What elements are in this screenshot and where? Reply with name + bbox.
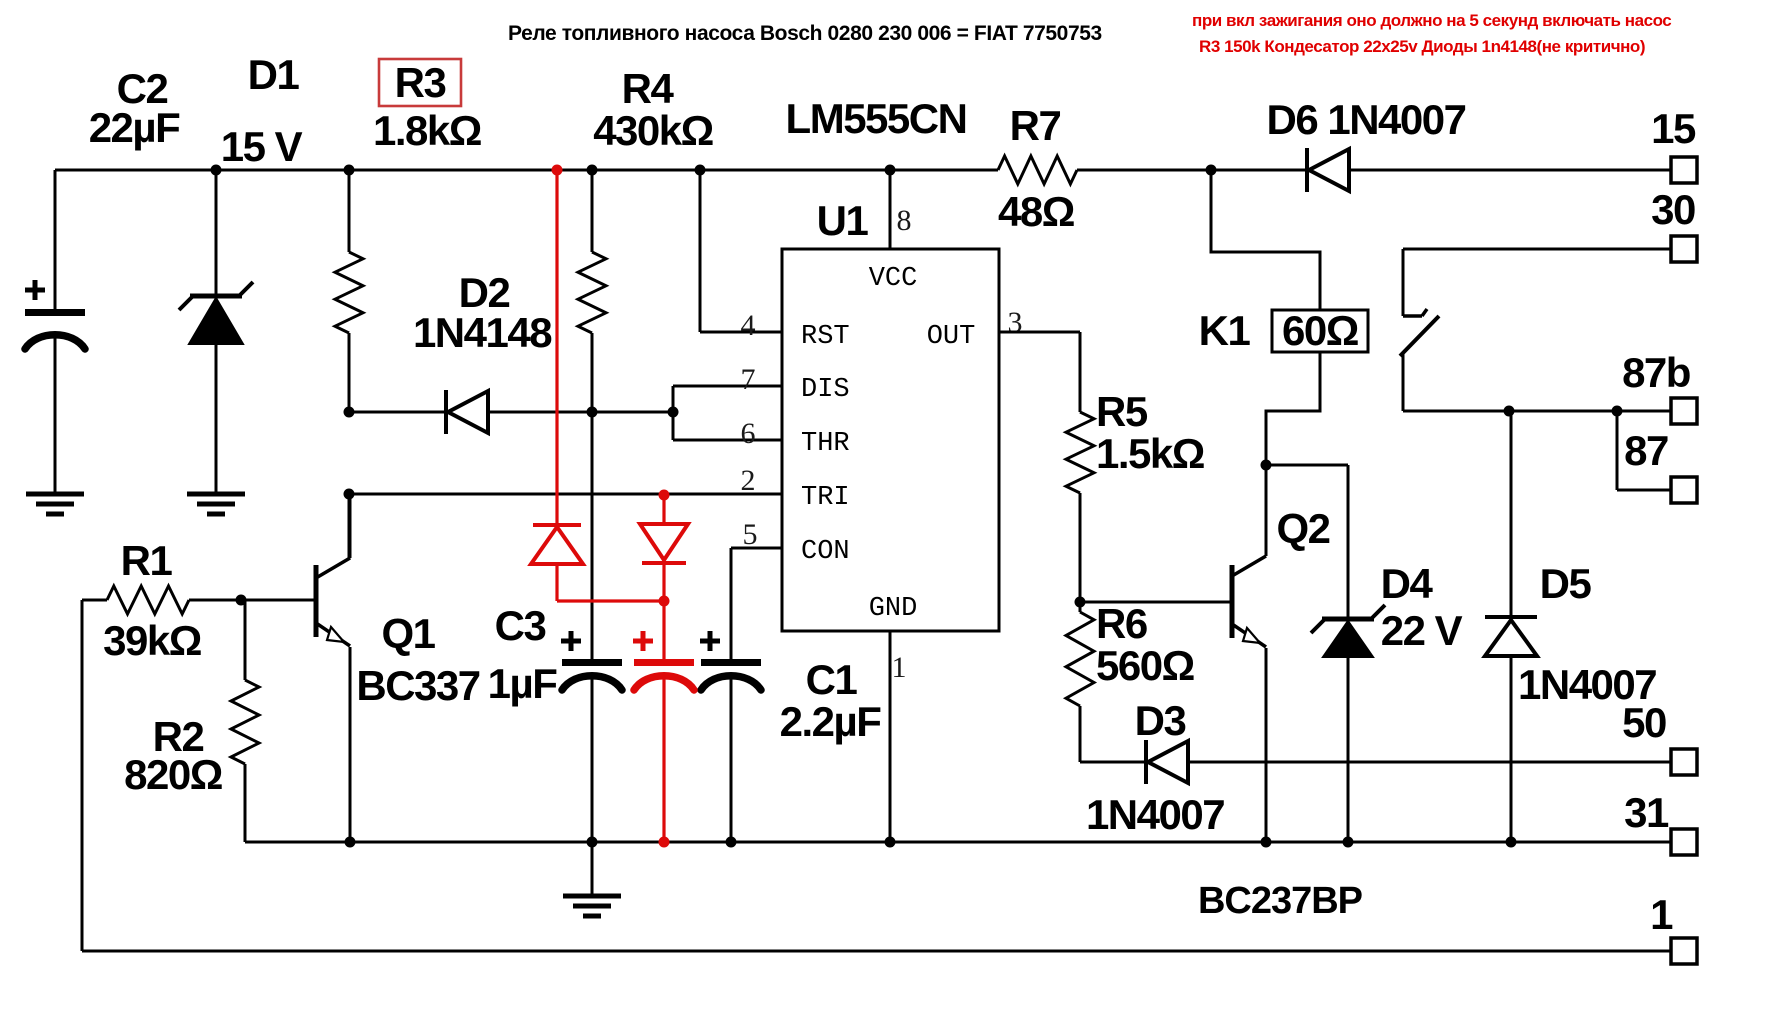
node: Q2 collector junction	[1261, 460, 1272, 471]
wire: 87b to D5	[1510, 411, 1513, 617]
wire: DIS/THR bracket	[673, 386, 782, 440]
pin number 3	[1008, 306, 1023, 339]
svg-text:87b: 87b	[1622, 349, 1690, 396]
wire: red timing tap (vertical)	[555, 170, 558, 525]
resistor R7	[998, 156, 1077, 184]
pin number 7	[741, 363, 756, 396]
wire: Q2 collector to D4	[1266, 465, 1348, 617]
terminal 87	[1624, 427, 1697, 503]
wire: base to Q1	[241, 599, 314, 602]
red note line 2	[1199, 37, 1645, 56]
svg-text:D3: D3	[1135, 697, 1186, 744]
svg-text:3: 3	[1008, 306, 1023, 339]
svg-text:2.2µF: 2.2µF	[780, 698, 882, 745]
diode red up (left)	[531, 525, 583, 601]
terminal 31	[1624, 789, 1697, 855]
svg-text:U1: U1	[817, 197, 869, 244]
wire: K1 coil top	[1211, 170, 1320, 310]
wire: D2 row	[349, 411, 673, 414]
wire: GND pin 1 down	[889, 631, 892, 842]
svg-text:RST: RST	[801, 322, 850, 352]
resistor R2	[231, 600, 259, 842]
svg-text:5: 5	[743, 518, 758, 551]
node: R1-R2-base junction	[236, 595, 247, 606]
node: R5-R6-base junction	[1075, 597, 1086, 608]
node: R3-D2 junction	[344, 407, 355, 418]
svg-text:LM555CN: LM555CN	[786, 95, 967, 142]
label R6 560	[1096, 600, 1194, 689]
label D5 1N4007	[1518, 560, 1656, 708]
label D6 1N4007	[1267, 96, 1466, 143]
wire: TRI pin 2 row	[349, 493, 782, 496]
pin name CON	[801, 537, 850, 567]
label R1 39k	[103, 537, 201, 664]
pin name OUT	[927, 322, 976, 352]
pin name DIS	[801, 375, 850, 405]
wire: VCC pin 8	[889, 170, 892, 249]
node: D5-rail	[1506, 837, 1517, 848]
wire: C3 line down	[591, 412, 594, 842]
label D2 1N4148	[413, 269, 552, 356]
wire: CON pin 5	[731, 548, 782, 659]
node: rail-R4 junction	[587, 165, 598, 176]
wire: R3 line to Q1 collector	[348, 494, 351, 560]
resistor R4	[578, 170, 606, 412]
svg-text:VCC: VCC	[869, 264, 918, 294]
capacitor C1	[700, 631, 761, 842]
wire: switch to 87b	[1403, 410, 1671, 413]
svg-text:50: 50	[1622, 699, 1666, 746]
pin number 4	[741, 309, 756, 342]
diode D3	[1146, 740, 1188, 784]
svg-text:R6: R6	[1096, 600, 1147, 647]
zener diode D1	[179, 282, 253, 344]
node: 87b-87 junction	[1612, 406, 1623, 417]
label D1 15V	[221, 51, 303, 170]
svg-text:R4: R4	[622, 65, 675, 112]
node: rail-K1 junction	[1206, 165, 1217, 176]
ground (C2)	[26, 494, 84, 514]
resistor R1	[82, 586, 241, 614]
transistor Q2	[1232, 465, 1266, 842]
svg-text:D5: D5	[1540, 560, 1592, 607]
svg-text:BC337: BC337	[356, 662, 479, 709]
node: R4-D2 junction	[587, 407, 598, 418]
node: D2-DIS/THR junction	[668, 407, 679, 418]
wire: R1 to terminal 1	[82, 600, 1671, 951]
terminal 1	[1650, 891, 1697, 964]
label 60Ω	[1282, 307, 1358, 354]
svg-text:K1: K1	[1199, 307, 1251, 354]
label D3 1N4007	[1086, 697, 1224, 838]
wire: ground bottom rail	[245, 841, 1671, 844]
node: rail-RST junction	[695, 165, 706, 176]
ground (D1)	[187, 494, 245, 514]
label C1 2.2µF	[780, 656, 882, 745]
svg-text:THR: THR	[801, 429, 850, 459]
node: D4-rail	[1343, 837, 1354, 848]
capacitor C3	[561, 631, 622, 690]
label K1	[1199, 307, 1251, 354]
pin name VCC	[869, 264, 918, 294]
label BC237BP	[1198, 880, 1363, 922]
svg-text:OUT: OUT	[927, 322, 976, 352]
svg-text:Q2: Q2	[1276, 505, 1329, 552]
node: rail red tap	[552, 165, 563, 176]
svg-text:BC237BP: BC237BP	[1198, 880, 1363, 922]
op-amp timer U1 LM555 box	[782, 249, 999, 631]
node: Q2 emitter-rail	[1261, 837, 1272, 848]
wire: OUT pin 3 to R5	[999, 332, 1080, 412]
label D4 22V	[1381, 560, 1463, 654]
title text	[508, 22, 1102, 45]
svg-text:1.5kΩ: 1.5kΩ	[1096, 430, 1204, 477]
diode red down (right)	[640, 495, 688, 601]
svg-text:TRI: TRI	[801, 483, 850, 513]
svg-text:15: 15	[1651, 105, 1696, 152]
svg-text:при вкл зажигания оно должно н: при вкл зажигания оно должно на 5 секунд…	[1192, 11, 1671, 30]
svg-text:2: 2	[741, 464, 756, 497]
svg-text:1N4148: 1N4148	[413, 309, 552, 356]
label R3 in red box	[373, 59, 481, 154]
label R2 820	[124, 713, 222, 798]
svg-text:C3: C3	[495, 602, 546, 649]
svg-text:60Ω: 60Ω	[1282, 307, 1358, 354]
svg-text:D1: D1	[248, 51, 300, 98]
svg-text:C1: C1	[806, 656, 858, 703]
pin number 1	[892, 651, 907, 684]
svg-text:15 V: 15 V	[221, 123, 303, 170]
svg-text:CON: CON	[801, 537, 850, 567]
svg-text:4: 4	[741, 309, 756, 342]
svg-text:1N4007: 1N4007	[1086, 791, 1224, 838]
pin number 5	[743, 518, 758, 551]
pin name GND	[869, 594, 918, 624]
svg-text:1.8kΩ: 1.8kΩ	[373, 107, 481, 154]
label R5 1.5k	[1096, 388, 1204, 477]
resistor R6	[1066, 602, 1094, 762]
svg-text:22 V: 22 V	[1381, 607, 1463, 654]
label LM555CN	[786, 95, 967, 142]
svg-text:R3: R3	[395, 59, 446, 106]
svg-text:1: 1	[892, 651, 907, 684]
terminal 30	[1651, 186, 1697, 262]
transistor Q1	[316, 494, 350, 842]
pin name RST	[801, 322, 850, 352]
label R7 48Ω	[998, 102, 1074, 235]
diode D6	[1307, 148, 1349, 192]
red note line 1	[1192, 11, 1671, 30]
svg-text:48Ω: 48Ω	[998, 188, 1074, 235]
svg-text:D4: D4	[1381, 560, 1434, 607]
wire: D1 branch	[215, 170, 218, 296]
svg-text:R5: R5	[1096, 388, 1148, 435]
svg-text:39kΩ: 39kΩ	[103, 617, 201, 664]
svg-text:7: 7	[741, 363, 756, 396]
svg-text:Q1: Q1	[381, 610, 435, 657]
pin number 2	[741, 464, 756, 497]
svg-text:Реле топливного насоса Bosch 0: Реле топливного насоса Bosch 0280 230 00…	[508, 22, 1102, 45]
node: GND pin-rail	[885, 837, 896, 848]
capacitor C2	[25, 170, 85, 492]
node: rail-D1 junction	[211, 165, 222, 176]
node: R3 line-TRI junction	[344, 489, 355, 500]
wire: to terminal 87	[1617, 411, 1671, 490]
wire: +15V top rail	[55, 169, 1671, 172]
wire: RST pin 4 to rail	[700, 170, 782, 332]
wire: red bottom link	[557, 599, 664, 602]
label C2 value	[89, 65, 180, 151]
terminal 87b	[1622, 349, 1697, 424]
node: rail-R3 junction	[344, 165, 355, 176]
pin name THR	[801, 429, 850, 459]
resistor R5	[1066, 412, 1094, 602]
svg-text:DIS: DIS	[801, 375, 850, 405]
resistor R3	[335, 170, 363, 412]
node: C1-rail	[726, 837, 737, 848]
node: red-rail junction	[659, 837, 670, 848]
node: red link junction	[659, 596, 670, 607]
svg-text:R1: R1	[121, 537, 173, 584]
svg-text:31: 31	[1624, 789, 1669, 836]
label Q1 BC337	[356, 610, 479, 709]
wire: K1 coil bottom to Q2	[1266, 352, 1320, 465]
node: red TRI junction	[659, 490, 670, 501]
terminal 50	[1622, 699, 1697, 775]
node: 87b-D5 junction	[1504, 406, 1515, 417]
svg-text:1: 1	[1650, 891, 1673, 938]
svg-text:6: 6	[741, 417, 756, 450]
svg-text:87: 87	[1624, 427, 1668, 474]
node: C3-rail	[587, 837, 598, 848]
wire: D3 row to terminal 50	[1080, 761, 1671, 764]
relay K1 coil	[1272, 310, 1368, 352]
pin name TRI	[801, 483, 850, 513]
svg-text:22µF: 22µF	[89, 104, 180, 151]
label U1	[817, 197, 869, 244]
svg-text:R3 150k Кондесатор 22x25v Дио: R3 150k Кондесатор 22x25v Диоды 1n4148(н…	[1199, 37, 1645, 56]
svg-text:430kΩ: 430kΩ	[593, 107, 713, 154]
capacitor red (C3 alt)	[633, 601, 694, 842]
svg-text:560Ω: 560Ω	[1096, 642, 1194, 689]
svg-text:8: 8	[897, 204, 912, 237]
label C3 1µF	[488, 602, 558, 707]
label Q2	[1276, 505, 1329, 552]
node: rail-VCC junction	[885, 165, 896, 176]
pin number 8	[897, 204, 912, 237]
svg-text:30: 30	[1651, 186, 1695, 233]
svg-text:820Ω: 820Ω	[124, 751, 222, 798]
label R4 value	[593, 65, 713, 154]
svg-text:1µF: 1µF	[488, 660, 558, 707]
pin number 6	[741, 417, 756, 450]
diode D5	[1485, 617, 1537, 842]
svg-text:R7: R7	[1010, 102, 1061, 149]
wire: Q2 base	[1080, 601, 1230, 604]
ground (rail)	[563, 842, 621, 916]
relay switch contact	[1400, 309, 1439, 411]
terminal 15	[1651, 105, 1697, 183]
node: Q1 emitter-rail	[345, 837, 356, 848]
wire: terminal 30 to switch	[1403, 249, 1671, 316]
diode D2	[446, 390, 488, 434]
svg-text:GND: GND	[869, 594, 918, 624]
svg-text:D6 1N4007: D6 1N4007	[1267, 96, 1466, 143]
zener diode D4	[1311, 605, 1385, 657]
